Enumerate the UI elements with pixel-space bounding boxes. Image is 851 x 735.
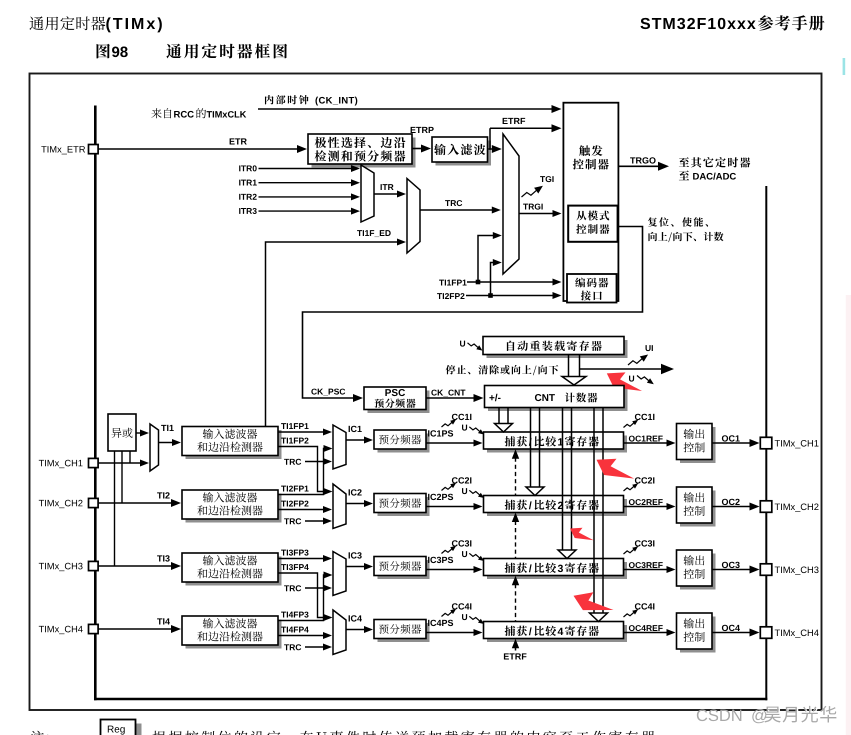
label U event into capture register 1 bbox=[462, 425, 467, 431]
label IC4PS bbox=[428, 620, 429, 626]
wire IC1PS into capture register bbox=[426, 442, 475, 444]
wire ETR to polarity box bbox=[98, 148, 298, 150]
box 输入滤波器和边沿检测器 channel 2 bbox=[186, 494, 282, 523]
wire IC3 to prescaler bbox=[346, 566, 365, 568]
csdn pink edge strip bbox=[846, 295, 851, 735]
label TRC channel 2 bbox=[284, 518, 289, 524]
label 至其它定时器 至 DAC/ADC bbox=[679, 157, 689, 167]
wires XOR inputs from TI1/TI2/TI3 bbox=[114, 451, 116, 566]
box 捕获/比较1寄存器 (capture/compare register 1) bbox=[487, 436, 627, 453]
box 捕获/比较4寄存器 (capture/compare register 4) bbox=[487, 625, 627, 642]
wire TI1FP2 crossover down bbox=[278, 447, 324, 492]
label TI3FP3 bbox=[281, 550, 286, 556]
red annotation arrow 3 bbox=[570, 528, 594, 541]
label CC2I right with event arrow bbox=[635, 477, 641, 483]
label CC1I right with event arrow bbox=[635, 414, 641, 420]
box 输出控制 channel 2 bbox=[680, 491, 716, 527]
box 极性选择、边沿检测和预分频器 bbox=[312, 138, 416, 168]
box 触发控制器 (trigger controller) bbox=[563, 103, 618, 301]
box 输出控制 channel 3 bbox=[680, 554, 716, 590]
box 输入滤波器和边沿检测器 channel 3 bbox=[186, 557, 282, 586]
box 预分频器 channel 2 bbox=[378, 497, 430, 516]
box Reg legend bbox=[136, 724, 142, 735]
junction TI1FP1 bbox=[476, 280, 481, 285]
box 编码器接口 (encoder interface) bbox=[567, 274, 617, 303]
label TI4FP3 bbox=[281, 612, 286, 618]
label TI1FP1 bbox=[281, 423, 286, 429]
box 输出控制 channel 1 bbox=[680, 427, 716, 463]
label ETRF bottom bbox=[504, 653, 509, 659]
box 捕获/比较2寄存器 (capture/compare register 2) bbox=[487, 499, 627, 516]
caption 图98 通用定时器框图 bbox=[97, 44, 110, 59]
label IC2PS bbox=[428, 494, 429, 500]
label 来自RCC的TIMxCLK bbox=[151, 108, 161, 118]
box 输入滤波器和边沿检测器 channel 1 bbox=[186, 430, 282, 459]
labels ITR0-ITR3 bbox=[239, 165, 240, 171]
wire IC4 to prescaler bbox=[346, 629, 365, 631]
label TI2FP2 (trigger inputs) bbox=[437, 293, 442, 299]
wire TIMx_CH1 to TI1 mux bbox=[98, 462, 141, 464]
label IC2 bbox=[349, 489, 350, 495]
pad TIMx_CH1 right bbox=[760, 437, 772, 449]
label IC3PS bbox=[428, 557, 429, 563]
box 输出控制 channel 4 bbox=[680, 617, 716, 653]
wire ETRF up into capture register 4 bbox=[515, 647, 517, 651]
label TI1F_ED bbox=[357, 230, 362, 236]
wire TI2FP1 up crossover bbox=[278, 449, 324, 495]
label TI1 bbox=[161, 425, 166, 431]
wire OC4 to pad bbox=[712, 632, 751, 634]
label CK_PSC bbox=[311, 389, 317, 395]
label U with event arrow on update line bbox=[629, 376, 634, 382]
box CNT 计数器 (counter) bbox=[488, 389, 628, 411]
pad TIMx_CH2 left bbox=[39, 500, 44, 506]
box 捕获/比较3寄存器 (capture/compare register 3) bbox=[487, 562, 627, 579]
label TI3 bbox=[157, 555, 162, 561]
label TRC channel 3 bbox=[284, 585, 289, 591]
label CC1I left with event arrow bbox=[452, 414, 458, 420]
label TRGI bbox=[523, 204, 528, 210]
label OC2 bbox=[722, 499, 728, 505]
label TI4FP4 bbox=[281, 627, 286, 633]
wire filtered ETR into TRGI mux bbox=[489, 148, 493, 150]
box 预分频器 channel 1 bbox=[378, 434, 430, 453]
pad TIMx_CH3 right bbox=[760, 564, 772, 576]
label TI2FP2 bbox=[281, 501, 286, 507]
bottom inner bus line bbox=[94, 698, 767, 701]
label U event into capture register 3 bbox=[462, 551, 467, 557]
label TI1FP1 (trigger inputs) bbox=[439, 280, 444, 286]
junction TI2FP2 bbox=[488, 293, 493, 298]
label OC1 bbox=[722, 435, 728, 441]
pad TIMx_CH3 left bbox=[39, 563, 44, 569]
label TI3FP4 bbox=[281, 564, 286, 570]
wire slave-mode control path to prescaler clock CK_PSC bbox=[303, 227, 643, 399]
wire crossover up into IC3 mux input2 bbox=[324, 572, 333, 579]
wire TI1FP1 to encoder interface bbox=[467, 281, 554, 283]
label U with event arrow into ARR bbox=[460, 341, 465, 347]
mux TRGI selector (tall trapezoid) bbox=[503, 134, 519, 274]
pad TIMx_CH1 left bbox=[39, 460, 44, 466]
label 复位、使能、向上/向下、计数 bbox=[648, 217, 657, 226]
left bus vertical line bbox=[94, 106, 97, 701]
label IC1 bbox=[349, 426, 350, 432]
wire TI1FP1 into IC1 mux bbox=[278, 431, 324, 433]
label CC3I left with event arrow bbox=[452, 540, 458, 546]
wire TI1 to input filter bbox=[159, 442, 174, 444]
wire TRC stub channel 2 bbox=[305, 520, 324, 522]
label OC2REF bbox=[629, 499, 635, 505]
wire OC3 to pad bbox=[712, 569, 751, 571]
box 预分频器 channel 3 bbox=[378, 560, 430, 579]
header right STM32F10xxx参考手册 bbox=[640, 18, 650, 29]
wire TI4FP3 up crossover bbox=[278, 575, 324, 621]
mux IC1 selector bbox=[333, 425, 346, 469]
note 注: bbox=[31, 731, 44, 735]
box 从模式控制器 (slave mode controller) bbox=[568, 206, 617, 242]
watermark CSDN @昊月光华 bbox=[697, 706, 838, 725]
label 停止、清除或向上/向下 bbox=[446, 365, 456, 374]
label CK_CNT bbox=[431, 390, 437, 396]
wire TI1F_ED from channel1 filter bbox=[266, 242, 399, 427]
wire IC2 to prescaler bbox=[346, 503, 365, 505]
wires ITR0-ITR3 into ITR mux bbox=[259, 168, 353, 170]
wire TI4 input bbox=[98, 628, 172, 630]
wire CK_INT into trigger controller bbox=[258, 108, 553, 110]
label IC1PS bbox=[428, 430, 429, 436]
label CC4I left with event arrow bbox=[452, 603, 458, 609]
label TI4 bbox=[157, 618, 162, 624]
mux TRC selector bbox=[407, 179, 420, 254]
wire TI4FP4 into IC4 mux bbox=[278, 635, 324, 637]
label CC3I right with event arrow bbox=[635, 540, 641, 546]
dashed capture transfer line with up arrows bbox=[512, 449, 519, 459]
wire TRC stub channel 1 bbox=[305, 461, 324, 463]
box 输入滤波 bbox=[436, 141, 492, 166]
mux IC2 selector bbox=[333, 484, 346, 529]
wire OC1REF to output control bbox=[624, 442, 668, 444]
mux IC3 selector bbox=[333, 552, 346, 596]
red annotation arrow 4 bbox=[574, 592, 614, 610]
wire ETRF to trigger controller bbox=[489, 128, 491, 149]
wire TI1FP1 up into TRGI mux bbox=[478, 236, 494, 283]
wire OC2 to pad bbox=[712, 506, 751, 508]
wire IC2PS into capture register bbox=[426, 506, 475, 508]
label ETRF bbox=[503, 118, 508, 124]
wire OC2REF to output control bbox=[624, 506, 668, 508]
wire TI2FP2 up into TRGI mux bbox=[491, 263, 495, 296]
label U event into capture register 4 bbox=[462, 614, 467, 620]
label U event into capture register 2 bbox=[462, 488, 467, 494]
pad TIMx_ETR bbox=[41, 146, 46, 152]
label OC4 bbox=[722, 625, 728, 631]
label IC3 bbox=[349, 552, 350, 558]
wire TRC stub channel 4 bbox=[305, 646, 324, 648]
wire TI2FP2 into IC2 mux bbox=[278, 509, 324, 511]
wire TRC stub channel 3 bbox=[305, 587, 324, 589]
box 异或 (XOR) bbox=[108, 414, 136, 451]
note text bbox=[152, 731, 165, 735]
wire TI3FP3 into IC3 mux bbox=[278, 558, 324, 560]
wire OC1 to pad bbox=[712, 442, 751, 444]
label TRGO bbox=[630, 157, 635, 163]
wire TI3 input bbox=[98, 565, 172, 567]
wire IC4PS into capture register bbox=[426, 632, 475, 634]
box 预分频器 channel 4 bbox=[378, 623, 430, 642]
pad TIMx_CH2 right bbox=[760, 501, 772, 513]
wire OC3REF to output control bbox=[624, 569, 668, 571]
wire ETRP bbox=[412, 148, 422, 150]
mux ITR selector bbox=[361, 165, 374, 222]
label OC3REF bbox=[629, 562, 635, 568]
label OC1REF bbox=[629, 436, 635, 442]
vertical buses CNT to capture registers bbox=[495, 408, 513, 432]
red annotation arrow 1 bbox=[607, 372, 642, 391]
label ETRP bbox=[411, 127, 416, 133]
label TI2 bbox=[157, 492, 162, 498]
box PSC 预分频器 (prescaler) bbox=[368, 391, 430, 414]
wire CK_CNT bbox=[426, 397, 475, 399]
box 输入滤波器和边沿检测器 channel 4 bbox=[186, 620, 282, 649]
hollow arrow ARR to CNT bbox=[562, 355, 586, 385]
header title left 通用定时器(TIMx) bbox=[29, 16, 43, 30]
right bus vertical line bbox=[765, 186, 767, 700]
label ITR bbox=[381, 184, 382, 190]
wire TI2FP2 to encoder interface bbox=[466, 295, 554, 297]
wire IC3PS into capture register bbox=[426, 569, 475, 571]
label ETR bbox=[230, 138, 235, 144]
wire TRGO out bbox=[618, 165, 659, 167]
label CC2I left with event arrow bbox=[452, 477, 458, 483]
update event line to right bbox=[580, 368, 663, 370]
wire IC1 to prescaler bbox=[346, 439, 365, 441]
label CC4I right with event arrow bbox=[635, 603, 641, 609]
label 内部时钟 (CK_INT) bbox=[265, 95, 274, 104]
wire XOR output bbox=[136, 432, 141, 434]
label TRC channel 1 bbox=[284, 459, 289, 465]
box 自动重装载寄存器 (auto-reload register) bbox=[487, 340, 628, 358]
label TRC channel 4 bbox=[284, 644, 289, 650]
wire ITR to TRC mux bbox=[374, 193, 398, 195]
wire TRC to TRGI mux bbox=[420, 209, 493, 211]
label OC4REF bbox=[629, 625, 635, 631]
label TI2FP1 bbox=[281, 486, 286, 492]
wire crossover up into IC1 mux input2 bbox=[324, 445, 333, 452]
wire TI3FP4 crossover down bbox=[278, 573, 324, 618]
pad TIMx_CH4 left bbox=[39, 626, 44, 632]
label OC3 bbox=[722, 562, 728, 568]
label TRC bbox=[445, 200, 450, 206]
label IC4 bbox=[349, 615, 350, 621]
wire TRGI into slave mode controller bbox=[519, 213, 554, 215]
mux TI1 selector bbox=[150, 424, 159, 471]
pad TIMx_CH4 right bbox=[760, 627, 772, 639]
label UI with event arrow bbox=[646, 345, 651, 351]
red annotation arrow 2 bbox=[597, 459, 635, 479]
mux IC4 selector bbox=[333, 610, 346, 655]
wire TI2 input bbox=[98, 502, 172, 504]
label TGI with event arrow bbox=[540, 176, 545, 182]
cyan mark top right bbox=[843, 58, 846, 75]
label TI1FP2 bbox=[281, 438, 286, 444]
wire OC4REF to output control bbox=[624, 632, 668, 634]
